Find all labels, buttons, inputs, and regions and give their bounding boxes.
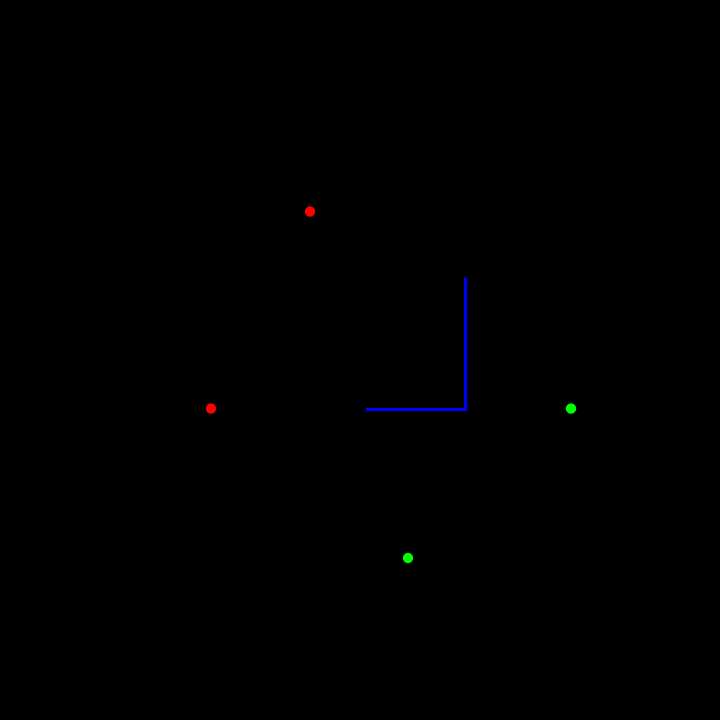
wire (blue L-shaped path) [366, 278, 466, 410]
node R2 (red dot, left) [206, 403, 216, 413]
node R1 (red dot, upper) [305, 206, 315, 216]
node G2 (green dot, bottom) [403, 553, 413, 563]
node G1 (green dot, right) [566, 403, 576, 413]
